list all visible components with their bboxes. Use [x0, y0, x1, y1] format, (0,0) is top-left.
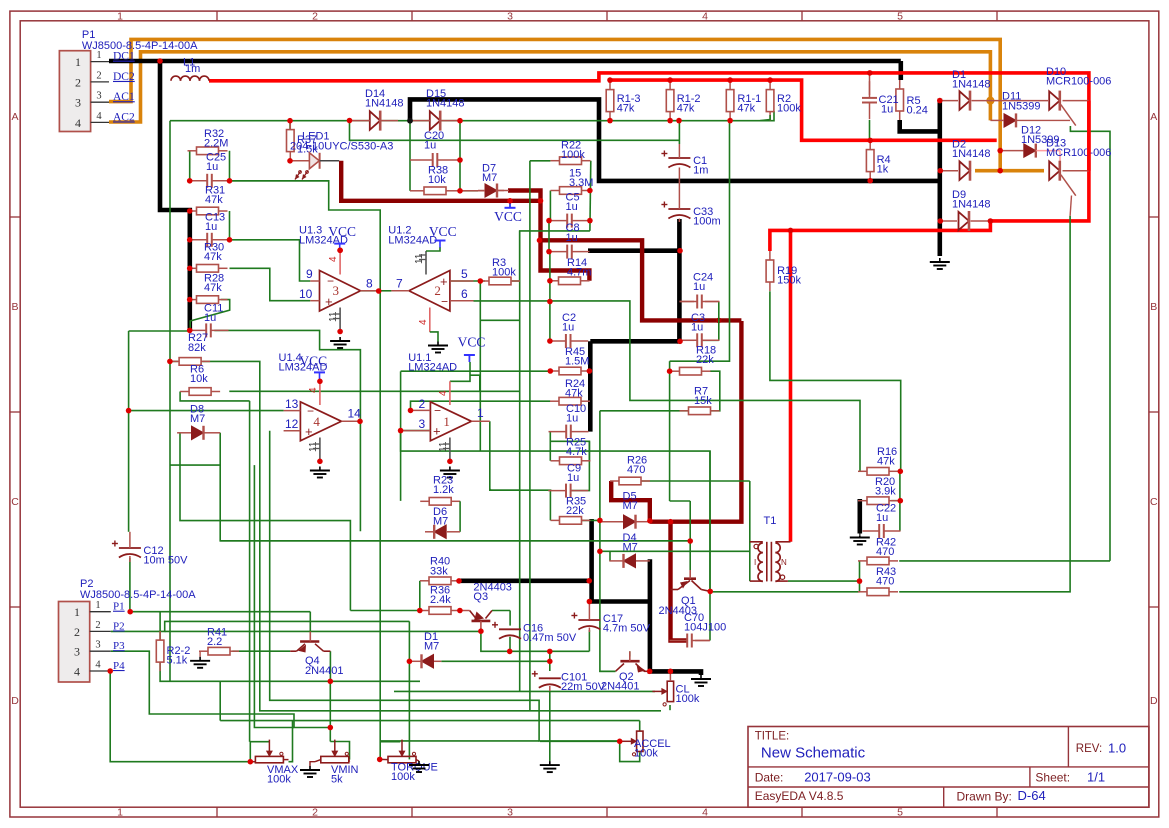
green Q3 coll: [492, 610, 510, 612]
green U12 pin5: [450, 280, 485, 282]
junction n75: [107, 668, 113, 674]
svg-text:100k: 100k: [634, 748, 658, 760]
svg-text:1: 1: [74, 605, 80, 619]
green LED out: [230, 180, 329, 182]
svg-text:−: −: [327, 274, 334, 288]
green P4 col: [110, 671, 250, 762]
svg-text:3: 3: [507, 807, 513, 819]
junction n53: [408, 408, 414, 414]
svg-text:2: 2: [419, 397, 426, 411]
resistor R23: [420, 475, 460, 506]
green y541 row: [220, 540, 690, 542]
svg-text:4: 4: [438, 390, 449, 396]
VCC U1.3: [328, 224, 356, 250]
green x530 col: [529, 161, 531, 711]
green U13 out: [361, 290, 381, 292]
resistor R15: [551, 168, 594, 195]
wire C33 leads: [678, 181, 680, 222]
green R45 row: [401, 370, 551, 372]
svg-text:New Schematic: New Schematic: [761, 745, 866, 762]
svg-text:1u: 1u: [562, 322, 574, 334]
wire black C2 row: [590, 339, 680, 344]
green R18 left stub: [669, 361, 671, 371]
wire black R5 bottom: [900, 120, 940, 131]
wire maroon C8 net: [540, 240, 742, 320]
green VMAX rail: [250, 742, 269, 762]
junction n0: [157, 58, 163, 64]
VMIN leads: [315, 760, 350, 762]
green R14 left col: [549, 251, 551, 341]
svg-text:1N4148: 1N4148: [426, 98, 465, 110]
green TORQUE rail: [380, 741, 401, 743]
svg-text:4.7m 50V: 4.7m 50V: [603, 623, 651, 635]
capacitor C10: [549, 403, 589, 439]
svg-text:P2: P2: [113, 620, 125, 632]
wire red R1 row: [609, 80, 996, 140]
wire D13 gate: [1070, 196, 1071, 217]
svg-text:EasyEDA V4.8.5: EasyEDA V4.8.5: [755, 789, 844, 803]
green C9 right: [571, 441, 590, 490]
svg-text:4: 4: [74, 665, 80, 679]
transistor Q3: [460, 582, 512, 632]
green R32 loop R: [229, 151, 231, 181]
green Q1 base top: [670, 500, 691, 502]
transistor Q4: [290, 632, 343, 678]
svg-text:+: +: [325, 294, 333, 309]
green U12 out: [381, 290, 392, 292]
svg-text:D: D: [11, 695, 19, 707]
svg-text:470: 470: [876, 576, 894, 588]
svg-text:2017-09-03: 2017-09-03: [804, 770, 871, 785]
svg-text:−: −: [441, 295, 448, 309]
junction n27: [187, 266, 193, 272]
green C5-C8 left: [548, 221, 550, 252]
svg-text:VCC: VCC: [429, 224, 457, 239]
svg-text:1u: 1u: [881, 104, 893, 116]
green P3 row: [111, 651, 330, 727]
junction n50: [677, 248, 683, 254]
green R40 loop: [419, 581, 421, 611]
green R31 loop R: [229, 211, 231, 240]
wire black R20 stub: [857, 499, 862, 534]
green x520 col: [519, 231, 521, 692]
svg-text:1u: 1u: [691, 322, 703, 334]
LED LED1: [290, 131, 393, 180]
svg-text:4: 4: [702, 10, 708, 22]
diode D2: [952, 139, 991, 181]
green pin2 row: [411, 401, 551, 410]
resistor R32: [188, 128, 229, 155]
svg-text:0.47m 50V: 0.47m 50V: [523, 632, 577, 644]
svg-text:4: 4: [702, 807, 708, 819]
svg-text:2N4401: 2N4401: [305, 665, 344, 677]
green R32 loop L: [189, 151, 191, 181]
green VCC D7: [509, 201, 511, 208]
diode D1: [422, 631, 440, 668]
junction n48: [587, 368, 593, 374]
svg-text:100k: 100k: [267, 774, 291, 786]
wire black D4 col: [650, 559, 701, 675]
ground U1.4: [310, 467, 330, 478]
svg-text:D: D: [1150, 695, 1158, 707]
junction n5: [676, 118, 682, 124]
junction n33: [457, 188, 463, 194]
capacitor C24: [680, 272, 720, 309]
svg-text:N: N: [781, 558, 787, 567]
green R19 col: [770, 291, 901, 470]
green D14 row: [170, 111, 774, 121]
transistor Q1: [659, 570, 711, 617]
green x254 col: [254, 465, 294, 727]
diode D11: [1002, 91, 1041, 128]
svg-text:A: A: [1150, 111, 1157, 123]
title block: [748, 727, 1149, 808]
svg-text:VCC: VCC: [299, 354, 327, 369]
svg-text:47k: 47k: [877, 456, 895, 468]
CL top lead: [669, 671, 671, 681]
capacitor C1: [661, 151, 708, 177]
ground VMIN: [300, 766, 320, 777]
diode D9: [952, 189, 991, 231]
wire D13 cathode out: [1063, 170, 1089, 172]
green R3-R22 link: [520, 231, 590, 281]
svg-text:REV:: REV:: [1076, 743, 1102, 755]
junction n32: [457, 157, 463, 163]
green pin3 row: [401, 430, 431, 432]
wire R23 right: [459, 501, 461, 532]
diode D4: [623, 532, 638, 568]
green R7 row: [600, 410, 689, 412]
junction U1.1 gnd: [447, 459, 453, 465]
op-amp U1.1: [408, 352, 471, 441]
svg-text:12: 12: [285, 417, 299, 431]
svg-text:LM324AD: LM324AD: [408, 362, 457, 374]
SCR D13: [1046, 137, 1111, 195]
svg-text:100k: 100k: [561, 149, 585, 161]
resistor R24: [550, 378, 590, 405]
VCC D7 symbol: [494, 201, 522, 224]
junction n29: [187, 328, 193, 334]
resistor R18: [671, 345, 717, 376]
green Q3 base row: [165, 630, 481, 632]
green R20 right: [891, 500, 900, 502]
VMAX leads: [250, 760, 288, 762]
wire black Q3 row: [458, 578, 591, 583]
junction n57: [587, 599, 593, 605]
svg-text:5: 5: [461, 267, 468, 281]
svg-text:150k: 150k: [777, 275, 801, 287]
junction n21: [347, 118, 353, 124]
green C25 stair: [230, 181, 381, 760]
junction n61: [647, 518, 653, 524]
green pin13 row: [129, 410, 284, 412]
junction U1.4 gnd: [317, 459, 323, 465]
junction n1: [457, 118, 463, 124]
junction n82: [857, 578, 863, 584]
resistor R1-2: [666, 81, 700, 121]
resistor R1-3: [606, 81, 640, 121]
svg-text:M7: M7: [433, 516, 448, 528]
svg-text:AC1: AC1: [113, 91, 135, 103]
resistor R7: [680, 386, 720, 415]
green VCC U11 row: [450, 362, 470, 381]
svg-text:Drawn By:: Drawn By:: [957, 789, 1012, 803]
resistor R19: [766, 251, 801, 291]
svg-text:2.2: 2.2: [207, 636, 222, 648]
junction n68: [547, 649, 553, 655]
green R15 left: [549, 191, 551, 221]
svg-text:4.7k: 4.7k: [566, 446, 587, 458]
junction n41: [587, 218, 593, 224]
svg-text:14: 14: [348, 407, 362, 421]
junction n73: [617, 739, 623, 745]
svg-text:2: 2: [75, 75, 81, 89]
wire maroon Q1 col: [671, 522, 687, 641]
wire black D1 col: [937, 99, 942, 257]
green R36 left row: [350, 610, 419, 612]
junction n2: [287, 118, 293, 124]
junction n14: [997, 148, 1003, 154]
transistor Q2: [599, 651, 650, 692]
svg-text:2: 2: [74, 625, 80, 639]
svg-text:10k: 10k: [428, 174, 446, 186]
junction n83: [707, 589, 713, 595]
svg-text:1: 1: [443, 414, 450, 429]
green R42 right: [899, 560, 1110, 562]
svg-text:1u: 1u: [693, 281, 705, 293]
green D8 anode col: [180, 433, 350, 611]
green P1 col: [169, 121, 171, 682]
wire D10 cath red: [1087, 101, 1091, 171]
svg-text:M7: M7: [424, 641, 439, 653]
green Q2 base col: [629, 651, 631, 656]
svg-text:MCR100-006: MCR100-006: [1046, 147, 1111, 159]
svg-text:D-64: D-64: [1018, 788, 1046, 803]
resistor R28: [188, 273, 228, 304]
svg-text:1/1: 1/1: [1087, 770, 1105, 785]
svg-text:2: 2: [96, 70, 101, 81]
resistor R38: [410, 165, 460, 195]
U1.2 pins: [391, 247, 473, 342]
svg-text:3: 3: [74, 645, 80, 659]
green LED col: [289, 121, 291, 131]
junction n70: [407, 659, 413, 665]
resistor R35: [551, 496, 591, 525]
junction n24: [187, 208, 193, 214]
svg-text:4: 4: [418, 319, 429, 325]
capacitor C13: [190, 212, 230, 247]
junction n71: [647, 669, 653, 675]
junction n72: [668, 669, 674, 675]
green D8 box: [170, 464, 220, 466]
svg-text:10k: 10k: [190, 373, 208, 385]
green T1 pri col: [749, 481, 751, 581]
svg-text:2N4401: 2N4401: [601, 681, 640, 693]
wire R2 bend: [760, 115, 770, 121]
green y721 row: [220, 720, 640, 722]
junction n78: [328, 725, 334, 731]
svg-text:5k: 5k: [331, 774, 343, 786]
svg-text:2.4k: 2.4k: [430, 594, 451, 606]
green R43 right: [899, 216, 1070, 592]
R41 gnd lead: [199, 651, 201, 657]
svg-text:M7: M7: [623, 542, 638, 554]
wire black D15 branch: [410, 99, 940, 180]
svg-text:−: −: [307, 404, 314, 418]
junction n4: [667, 118, 673, 124]
green C20 loop L: [409, 121, 411, 191]
wire black R5 col: [898, 61, 903, 80]
wire DC1 black top: [109, 59, 901, 64]
svg-text:204-10UYC/S530-A3: 204-10UYC/S530-A3: [290, 140, 393, 152]
diode D8: [190, 404, 205, 440]
resistor R4: [866, 141, 890, 181]
svg-text:2N4403: 2N4403: [659, 605, 698, 617]
green R38-D7: [460, 190, 478, 192]
green R41 row: [232, 650, 290, 652]
green pin12 col: [270, 431, 620, 741]
svg-text:3: 3: [96, 91, 101, 102]
svg-text:3: 3: [419, 417, 426, 431]
junction n36: [478, 278, 484, 284]
green pin6-R16 row: [474, 301, 861, 471]
wire maroon D5 row: [650, 321, 742, 522]
ground R41: [190, 657, 210, 668]
green C101 gnd col: [549, 691, 551, 761]
green R43 row: [710, 591, 860, 593]
capacitor C2: [548, 312, 588, 348]
diode D6: [433, 506, 448, 539]
green x520 branch: [491, 489, 520, 491]
svg-text:4: 4: [75, 116, 81, 130]
wire maroon LED-D7: [341, 161, 540, 201]
diode D14: [352, 88, 404, 131]
svg-text:1: 1: [117, 10, 123, 22]
svg-text:WJ8500-8.5-4P-14-00A: WJ8500-8.5-4P-14-00A: [80, 589, 196, 601]
svg-text:A: A: [11, 111, 18, 123]
svg-text:47k: 47k: [205, 194, 223, 206]
junction n26: [187, 237, 193, 243]
wire D8 leads: [177, 432, 220, 434]
green CL bot: [669, 705, 671, 710]
resistor R1-1: [726, 81, 761, 121]
svg-text:Date:: Date:: [755, 771, 784, 785]
svg-text:2: 2: [95, 620, 100, 631]
green R3 right: [512, 280, 520, 282]
svg-text:1k: 1k: [877, 164, 889, 176]
svg-text:1u: 1u: [204, 312, 216, 324]
junction U1.3 vcc: [337, 248, 343, 254]
green x670 col: [669, 371, 671, 501]
resistor R14: [550, 257, 592, 285]
svg-text:+: +: [440, 274, 448, 289]
svg-text:1N5399: 1N5399: [1002, 100, 1041, 112]
capacitor C5: [550, 192, 590, 228]
wire C101 bot: [549, 686, 551, 691]
junction n28: [187, 297, 193, 303]
wire C21 top: [869, 73, 871, 95]
wire C21 bot green: [869, 120, 871, 140]
svg-text:M7: M7: [482, 172, 497, 184]
junction n45: [547, 299, 553, 305]
junction n79: [377, 757, 383, 763]
junction n8: [667, 77, 673, 83]
green pin3 down: [401, 431, 710, 592]
ground TORQUE: [409, 761, 429, 772]
green C17 bot col: [588, 630, 590, 651]
resistor R25: [551, 437, 591, 465]
svg-text:3.9k: 3.9k: [875, 486, 896, 498]
resistor R26: [610, 455, 650, 485]
resistor R45: [550, 346, 590, 375]
svg-text:13: 13: [285, 397, 299, 411]
svg-text:1u: 1u: [566, 413, 578, 425]
wire black R35 col: [592, 519, 650, 602]
resistor R5: [896, 80, 928, 120]
green C9-R35 left: [549, 491, 551, 521]
green R18 left net: [670, 121, 730, 362]
junction n69: [547, 659, 553, 665]
green y551 row: [600, 550, 750, 552]
svg-text:1N4148: 1N4148: [952, 148, 991, 160]
green R2-2 bot: [160, 662, 220, 721]
connector P2: [59, 578, 197, 682]
label R37: [297, 134, 318, 156]
green ACCEL top: [639, 721, 641, 732]
svg-text:VCC: VCC: [494, 209, 522, 224]
ground U1.3: [330, 337, 350, 348]
svg-text:TITLE:: TITLE:: [755, 731, 790, 743]
svg-text:2: 2: [312, 10, 318, 22]
svg-text:15k: 15k: [694, 395, 712, 407]
svg-text:5: 5: [897, 807, 903, 819]
green R26 right: [641, 480, 750, 482]
svg-text:1u: 1u: [424, 140, 436, 152]
green C12 col: [128, 411, 130, 532]
wire maroon D7 out: [508, 191, 589, 281]
svg-text:1m: 1m: [185, 63, 200, 75]
resistor R20: [858, 476, 898, 505]
resistor R16: [858, 446, 898, 475]
svg-text:P1: P1: [113, 601, 125, 613]
junction n30: [167, 359, 173, 365]
green U11 out2: [490, 489, 491, 490]
green C3 right: [702, 339, 718, 341]
junction n19: [938, 218, 944, 224]
VCC U1.4: [299, 354, 327, 380]
green C12-P1: [129, 558, 131, 612]
green R27 left: [170, 360, 178, 362]
capacitor C70: [670, 612, 727, 648]
VMIN gnd lead: [310, 762, 315, 766]
junction n52: [126, 408, 132, 414]
svg-text:100k: 100k: [492, 267, 516, 279]
wire black C33 col: [677, 219, 682, 341]
capacitor C11: [189, 303, 229, 338]
green VMIN wiper col: [329, 681, 331, 741]
svg-text:11: 11: [328, 311, 339, 322]
green C10 left: [549, 432, 551, 461]
green D10 gate net: [1070, 126, 1110, 561]
green C12-C11 col: [128, 331, 130, 411]
resistor R42: [858, 537, 898, 565]
capacitor C12: [112, 541, 188, 567]
svg-text:470: 470: [627, 464, 645, 476]
junction n51: [667, 368, 673, 374]
junction n20: [788, 228, 794, 234]
green R18 loop R: [710, 371, 720, 411]
junction n76: [248, 759, 254, 765]
